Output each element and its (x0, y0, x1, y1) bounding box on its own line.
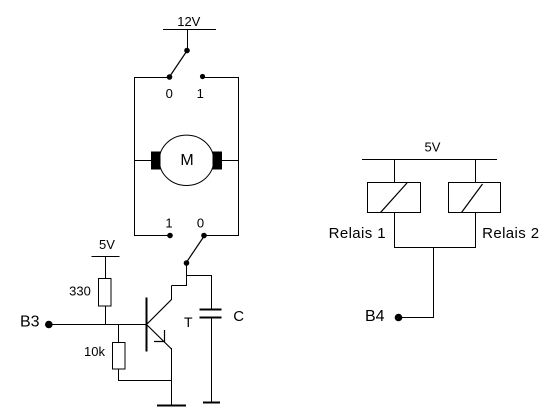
12V supply rail (163, 29, 216, 31)
wire base node to resistor 10k (118, 325, 120, 343)
5V supply rail (right) (362, 159, 497, 161)
svg-text:C: C (233, 308, 244, 325)
resistor R330 body (99, 279, 112, 307)
svg-text:1: 1 (165, 216, 172, 231)
wire to capacitor top (187, 275, 213, 277)
ground capacitor (203, 402, 220, 404)
wire B4 horizontal (399, 317, 434, 319)
wire resistor 10k down (118, 369, 120, 381)
svg-text:Relais 2: Relais 2 (482, 225, 539, 242)
capacitor C bottom plate (200, 317, 222, 319)
switch S2 common dot (184, 260, 190, 266)
relay K2 diagonal (462, 184, 483, 213)
svg-text:5V: 5V (425, 139, 441, 154)
wire 5V to resistor 330 (105, 257, 107, 279)
wire bridge top-right (203, 77, 239, 79)
switch S2 contact 1 dot (167, 233, 173, 239)
svg-text:B3: B3 (20, 314, 40, 331)
svg-text:B4: B4 (365, 308, 385, 325)
transistor T base bar (146, 298, 148, 352)
motor left brush (151, 152, 161, 170)
svg-text:1: 1 (197, 86, 204, 101)
node B4 dot (395, 314, 403, 322)
switch S1 contact 0 dot (167, 74, 173, 80)
motor right brush (213, 152, 223, 170)
wire capacitor bottom down (211, 319, 213, 403)
wire collector jog horizontal (172, 285, 188, 287)
wire bridge top-left (134, 77, 169, 79)
wire join to B4 drop (433, 248, 435, 319)
svg-text:0: 0 (197, 216, 204, 231)
switch S1 blade (170, 52, 187, 77)
ground transistor emitter (157, 405, 186, 407)
node B3 dot (45, 321, 53, 329)
svg-text:12V: 12V (177, 14, 200, 29)
switch S1 common dot (184, 48, 190, 54)
motor M body (159, 135, 213, 185)
wire collector jog vertical (171, 286, 173, 301)
transistor T collector lead (147, 300, 172, 325)
svg-text:M: M (180, 152, 193, 169)
wire bridge left edge (134, 77, 136, 236)
wire B3 to transistor base (49, 324, 146, 326)
wire emitter down (171, 348, 173, 405)
switch S2 contact 0 dot (201, 233, 207, 239)
resistor R10k body (113, 343, 126, 370)
wire relay 1 down (394, 213, 396, 249)
wire rail to relay 2 (475, 160, 477, 184)
transistor T emitter lead (147, 325, 172, 350)
5V supply rail (left) (92, 256, 120, 258)
wire motor left lead (134, 160, 152, 162)
svg-text:330: 330 (69, 284, 91, 299)
wire relay 2 down (475, 213, 477, 249)
wire switch S2 down (186, 263, 188, 286)
capacitor C top plate (200, 309, 222, 311)
wire 12V rail to switch S1 (187, 30, 189, 51)
wire capacitor top drop (211, 276, 213, 310)
wire bridge bottom-right (204, 235, 239, 237)
wire motor right lead (221, 160, 239, 162)
wire rail to relay 1 (394, 160, 396, 184)
wire relay join (394, 247, 476, 249)
relay K2 body (449, 183, 501, 213)
svg-text:0: 0 (166, 86, 173, 101)
switch S2 blade (187, 237, 204, 262)
wire resistor 330 to base node (105, 306, 107, 325)
transistor T emitter arrow (154, 330, 165, 342)
svg-text:10k: 10k (84, 344, 105, 359)
relay K1 body (368, 183, 421, 213)
svg-text:T: T (184, 314, 193, 330)
svg-text:5V: 5V (99, 237, 115, 252)
wire 10k to emitter (119, 380, 172, 382)
relay K1 diagonal (381, 183, 408, 213)
svg-text:Relais 1: Relais 1 (329, 225, 386, 242)
switch S1 contact 1 dot (200, 74, 205, 79)
wire bridge bottom-left (134, 235, 170, 237)
wire bridge right edge (238, 77, 240, 236)
